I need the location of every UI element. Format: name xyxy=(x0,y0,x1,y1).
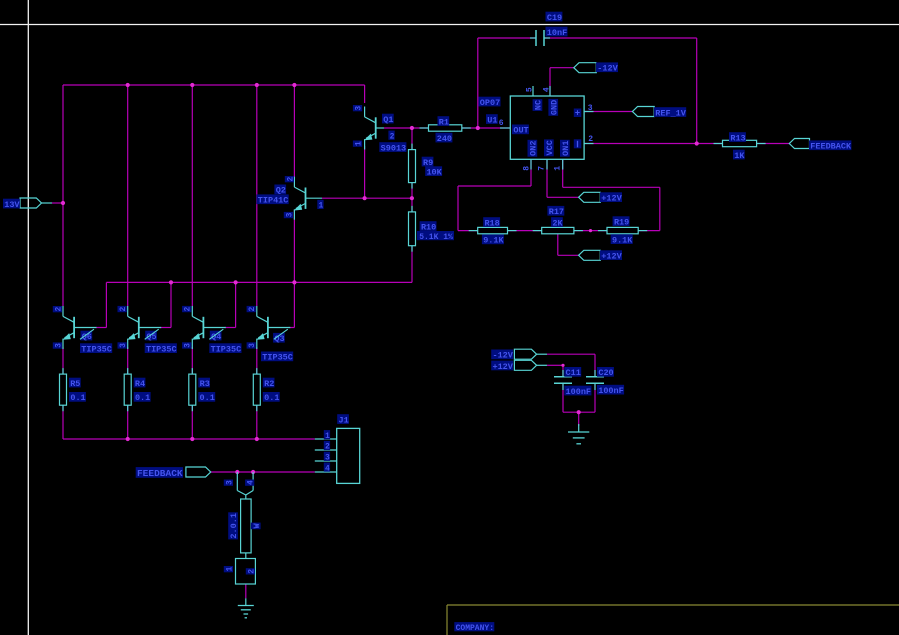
svg-text:+12V: +12V xyxy=(492,362,513,372)
svg-text:GND: GND xyxy=(549,100,559,115)
svg-text:2: 2 xyxy=(54,307,63,312)
svg-text:2: 2 xyxy=(325,443,330,452)
svg-text:1K: 1K xyxy=(734,151,745,161)
svg-text:FEEDBACK: FEEDBACK xyxy=(810,142,852,152)
svg-text:NC: NC xyxy=(534,100,544,110)
svg-text:R10: R10 xyxy=(421,222,436,232)
svg-text:1: 1 xyxy=(318,202,323,211)
svg-text:Q2: Q2 xyxy=(276,186,286,196)
svg-text:5: 5 xyxy=(526,87,535,92)
svg-text:C20: C20 xyxy=(598,368,613,378)
svg-text:4: 4 xyxy=(543,87,552,92)
svg-text:COMPANY:: COMPANY: xyxy=(456,624,494,633)
svg-text:TIP41C: TIP41C xyxy=(258,196,289,206)
svg-text:TIP35C: TIP35C xyxy=(81,345,112,355)
svg-text:2.0.1: 2.0.1 xyxy=(229,513,239,539)
svg-text:100nF: 100nF xyxy=(598,386,624,396)
svg-text:ON2: ON2 xyxy=(529,141,539,156)
svg-text:1: 1 xyxy=(225,567,234,572)
svg-text:3: 3 xyxy=(285,212,294,217)
svg-text:R13: R13 xyxy=(730,133,745,143)
svg-text:OP07: OP07 xyxy=(480,98,500,108)
svg-text:4: 4 xyxy=(325,464,330,473)
svg-text:R3: R3 xyxy=(200,379,210,389)
svg-text:2: 2 xyxy=(184,307,193,312)
svg-text:R19: R19 xyxy=(614,218,629,228)
svg-text:5.1K 1%: 5.1K 1% xyxy=(419,233,453,242)
svg-text:8: 8 xyxy=(522,166,531,171)
svg-text:R1: R1 xyxy=(439,117,449,127)
svg-text:1: 1 xyxy=(325,432,330,441)
svg-text:C11: C11 xyxy=(566,368,581,378)
svg-text:TIP35C: TIP35C xyxy=(146,345,177,355)
svg-text:3: 3 xyxy=(354,106,363,111)
svg-text:REF_1V: REF_1V xyxy=(655,108,687,118)
svg-text:1: 1 xyxy=(553,166,562,171)
svg-text:2: 2 xyxy=(390,132,395,141)
svg-text:3: 3 xyxy=(588,104,593,113)
svg-text:13V: 13V xyxy=(4,200,20,210)
svg-text:2: 2 xyxy=(588,135,593,144)
svg-text:R18: R18 xyxy=(484,218,499,228)
svg-text:R2: R2 xyxy=(264,379,274,389)
svg-text:J1: J1 xyxy=(338,415,348,425)
svg-text:0.1: 0.1 xyxy=(200,393,215,403)
svg-text:7: 7 xyxy=(538,166,547,171)
svg-text:3: 3 xyxy=(54,343,63,348)
svg-text:+: + xyxy=(575,109,580,119)
svg-text:-12V: -12V xyxy=(597,64,618,74)
svg-text:2: 2 xyxy=(286,177,295,182)
svg-text:3: 3 xyxy=(119,343,128,348)
svg-text:2: 2 xyxy=(247,569,256,574)
svg-text:0.1: 0.1 xyxy=(70,393,85,403)
svg-text:ON1: ON1 xyxy=(561,141,571,156)
svg-text:+12V: +12V xyxy=(601,252,622,262)
svg-text:2: 2 xyxy=(119,307,128,312)
svg-text:FEEDBACK: FEEDBACK xyxy=(137,468,183,479)
svg-text:0.1: 0.1 xyxy=(135,393,150,403)
svg-text:TIP35C: TIP35C xyxy=(262,353,293,363)
svg-text:0.1: 0.1 xyxy=(264,393,279,403)
svg-text:6: 6 xyxy=(499,119,504,128)
svg-text:10nF: 10nF xyxy=(547,28,567,38)
svg-text:S9013: S9013 xyxy=(381,143,407,153)
svg-text:100nF: 100nF xyxy=(566,387,592,397)
svg-text:9.1K: 9.1K xyxy=(483,236,504,246)
svg-text:3: 3 xyxy=(184,343,193,348)
svg-text:R4: R4 xyxy=(135,379,145,389)
svg-text:9.1K: 9.1K xyxy=(612,236,633,246)
svg-text:R17: R17 xyxy=(549,207,564,217)
svg-text:3: 3 xyxy=(225,480,234,485)
svg-text:VCC: VCC xyxy=(545,140,555,155)
svg-text:2K: 2K xyxy=(552,218,563,228)
svg-text:1: 1 xyxy=(354,141,363,146)
svg-text:C19: C19 xyxy=(547,13,562,23)
svg-text:2: 2 xyxy=(248,307,257,312)
svg-text:240: 240 xyxy=(437,134,452,144)
svg-text:W: W xyxy=(252,522,262,528)
svg-text:U1: U1 xyxy=(487,115,497,125)
svg-text:3: 3 xyxy=(248,343,257,348)
svg-text:4: 4 xyxy=(247,480,256,485)
svg-text:OUT: OUT xyxy=(513,126,528,136)
svg-text:R5: R5 xyxy=(70,379,80,389)
svg-text:+12V: +12V xyxy=(601,194,622,204)
svg-text:-12V: -12V xyxy=(492,351,513,361)
svg-text:TIP35C: TIP35C xyxy=(211,345,242,355)
svg-text:3: 3 xyxy=(325,454,330,463)
svg-text:Q1: Q1 xyxy=(383,115,393,125)
svg-text:10K: 10K xyxy=(426,168,442,178)
